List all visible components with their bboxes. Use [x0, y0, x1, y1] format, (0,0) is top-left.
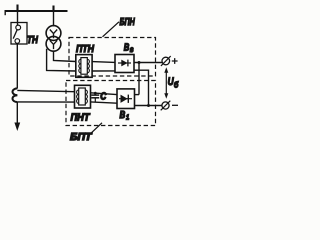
transformer block PNT	[75, 85, 91, 108]
wire Vv plus output	[134, 62, 162, 64]
arrow feeder end	[14, 123, 20, 132]
current transformer CT	[12, 88, 17, 102]
svg-text:ПТН: ПТН	[76, 43, 94, 55]
dashed box BPT	[66, 81, 156, 126]
wire fuse-switch to CT	[16, 44, 18, 89]
rectifier block V1	[117, 89, 135, 109]
wire feeder down	[16, 102, 18, 123]
wire V1 minus output	[135, 105, 162, 107]
leader line BPT	[91, 123, 102, 133]
wire bus to VT	[53, 11, 55, 26]
wire VT secondary a	[54, 51, 76, 61]
leader line BPN	[103, 22, 120, 37]
svg-text:1: 1	[126, 113, 129, 122]
terminal plus	[161, 56, 171, 66]
svg-text:С: С	[100, 92, 107, 103]
rectifier block Vv	[115, 55, 134, 73]
fuse-switch F1	[11, 23, 27, 45]
wire CT secondary top	[17, 90, 74, 91]
svg-text:БПН: БПН	[120, 16, 135, 28]
wire PTN out top	[92, 61, 115, 64]
transformer block PTN	[76, 55, 92, 78]
label plus	[172, 58, 178, 64]
capacitor C	[91, 92, 99, 102]
terminal minus	[161, 101, 171, 111]
label minus	[172, 104, 178, 106]
node minus junction	[147, 104, 150, 107]
wire PNT out bottom	[91, 102, 118, 103]
svg-text:ТН: ТН	[27, 34, 38, 46]
svg-text:ПНТ: ПНТ	[71, 112, 91, 124]
node plus junction	[138, 61, 141, 64]
wire VT secondary b	[47, 49, 76, 71]
svg-text:б: б	[174, 81, 179, 90]
svg-text:в: в	[130, 45, 134, 54]
dashed box BPN	[69, 38, 156, 77]
voltage transformer VT winding 1	[46, 26, 61, 41]
svg-text:БПТ: БПТ	[70, 131, 93, 143]
arrow Ub	[164, 67, 168, 98]
voltage transformer VT winding 2	[46, 36, 61, 51]
busbar	[5, 11, 68, 16]
wire vertical A	[138, 63, 140, 95]
wire PNT out top	[91, 93, 118, 95]
wire V1 plus output	[135, 94, 140, 96]
wire Vv minus output	[134, 70, 149, 105]
wire PTN out bottom	[92, 70, 115, 72]
svg-text:В: В	[120, 109, 126, 121]
bus tap tick 2	[52, 6, 54, 12]
wire CT secondary bottom	[17, 101, 74, 103]
bus tap tick 1	[16, 5, 18, 12]
wire bus to fuse-switch	[17, 11, 19, 25]
